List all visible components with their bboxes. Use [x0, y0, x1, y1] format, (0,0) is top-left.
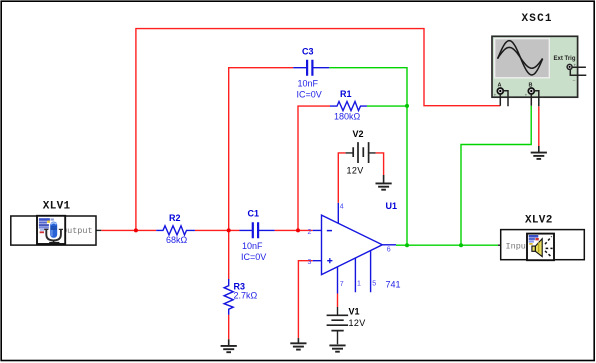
wire R3 bottom to ground (red) — [228, 315, 230, 340]
svg-text:R1: R1 — [340, 89, 352, 99]
battery V1 — [327, 307, 366, 345]
svg-text:+: + — [494, 93, 497, 98]
svg-text:R2: R2 — [169, 213, 181, 223]
battery V2 — [346, 129, 376, 176]
capacitor C3 — [293, 47, 329, 100]
wire op-amp pin 3 to ground (red) — [298, 261, 312, 338]
wire output node up to scope B plus (green) — [461, 106, 531, 246]
svg-text:Output: Output — [62, 226, 93, 236]
svg-text:10nF: 10nF — [242, 241, 263, 251]
svg-text:4: 4 — [340, 204, 344, 211]
wire input node up to top rail (red) — [136, 29, 500, 231]
capacitor C1 — [240, 209, 275, 263]
svg-text:XSC1: XSC1 — [522, 13, 553, 25]
wire V2 left lead to pin 4 (red) — [338, 153, 345, 203]
wire node X up to C3 left (red) — [229, 68, 294, 231]
wire R1 right to green vertical (green) — [367, 105, 407, 107]
svg-text:IC=0V: IC=0V — [297, 90, 322, 100]
mic capsule — [50, 222, 57, 238]
svg-text:2.7kΩ: 2.7kΩ — [234, 291, 258, 301]
pin number 4 — [340, 204, 344, 211]
ext trig stubs — [570, 67, 586, 75]
wire R2 to C1 (red) — [195, 229, 240, 231]
ground at op-amp pin 3 — [290, 338, 306, 350]
svg-text:_: _ — [509, 92, 513, 97]
wire V2 right lead to ground (red) — [376, 153, 384, 175]
ground under scope B minus — [531, 146, 547, 159]
junction node X (R2/C1/R3/C3) — [227, 228, 231, 232]
svg-text:XLV1: XLV1 — [43, 201, 71, 213]
svg-text:+: + — [525, 93, 528, 98]
pin number 1 — [357, 281, 361, 288]
mic holder — [46, 230, 61, 241]
wire XLV1 output stub (black) — [96, 229, 101, 231]
svg-text:6: 6 — [387, 247, 391, 254]
pin number 3 — [308, 259, 312, 266]
svg-text:V1: V1 — [349, 307, 360, 317]
speaker horn — [532, 246, 536, 251]
svg-text:XLV2: XLV2 — [525, 215, 553, 227]
resistor R2 — [156, 213, 195, 245]
svg-text:741: 741 — [386, 280, 401, 290]
speaker mini-icon pixels — [529, 235, 539, 238]
svg-text:C3: C3 — [302, 47, 314, 57]
junction R1 right on green vertical — [405, 104, 409, 108]
microphone XLV1 — [11, 201, 96, 246]
svg-text:V2: V2 — [353, 129, 364, 139]
svg-text:5: 5 — [372, 281, 376, 288]
wire op-amp output to XLV2 (green) — [396, 244, 498, 246]
wire pin 7 to V1 (red) — [337, 294, 339, 308]
junction output node at green vertical — [405, 243, 409, 247]
junction inverting node (C1/R1/pin2) — [296, 228, 300, 232]
op-amp U1 — [313, 201, 401, 294]
wire XLV1 to R2 (red) — [101, 229, 156, 231]
wire C1 to op-amp pin 2 (red) — [275, 229, 313, 231]
svg-text:68kΩ: 68kΩ — [166, 235, 188, 245]
ext trig terminal — [567, 64, 572, 69]
junction output node at scope branch — [459, 243, 463, 247]
pin number 2 — [308, 229, 312, 236]
ground at V2 — [376, 175, 392, 190]
pin number 6 — [387, 247, 391, 254]
pin number 7 — [340, 281, 344, 288]
wire inverting node up to R1 left (red) — [298, 106, 330, 230]
wire C3 right to output node (green) — [329, 68, 407, 246]
svg-text:180kΩ: 180kΩ — [334, 112, 361, 122]
svg-text:_: _ — [540, 92, 544, 97]
resistor R3 — [224, 279, 257, 315]
resistor R1 — [330, 89, 367, 122]
mic mini-icon pixels — [39, 218, 50, 221]
wire scope B minus to ground (red) — [538, 106, 540, 146]
svg-text:2: 2 — [308, 229, 312, 236]
svg-text:+: + — [574, 63, 577, 68]
svg-text:10nF: 10nF — [298, 79, 319, 89]
svg-text:Ext Trig: Ext Trig — [554, 56, 576, 62]
svg-text:7: 7 — [340, 281, 344, 288]
svg-text:U1: U1 — [386, 201, 398, 211]
ground under R3 — [221, 339, 237, 352]
svg-text:1: 1 — [357, 281, 361, 288]
svg-text:IC=0V: IC=0V — [241, 252, 266, 262]
speaker rays — [545, 236, 553, 257]
junction input node at R2 left — [134, 228, 138, 232]
svg-text:_: _ — [572, 76, 576, 81]
wire XLV2 input stub (black) — [498, 244, 501, 246]
wire node X down to R3 (red) — [228, 230, 230, 279]
pin number 5 — [372, 281, 376, 288]
speaker XLV2 — [501, 215, 585, 261]
svg-text:12V: 12V — [347, 166, 364, 176]
ground under V1 — [329, 345, 345, 351]
oscilloscope XSC1 — [492, 13, 586, 106]
svg-text:12V: 12V — [349, 318, 366, 328]
svg-text:3: 3 — [308, 259, 312, 266]
svg-text:C1: C1 — [248, 209, 260, 219]
